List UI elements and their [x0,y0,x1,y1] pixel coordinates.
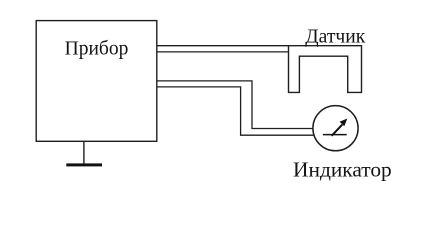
svg-text:Датчик: Датчик [305,27,365,48]
svg-text:Прибор: Прибор [65,39,129,60]
svg-text:Индикатор: Индикатор [293,158,392,182]
